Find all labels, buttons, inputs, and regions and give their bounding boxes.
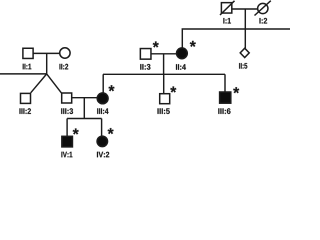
couple line III:3-III:4 [72, 97, 98, 99]
label II:4 [176, 64, 186, 70]
sibship line generation II right [182, 29, 290, 48]
wire descender III:3 couple [83, 98, 85, 119]
wire drop to III:4 [102, 74, 104, 92]
label III:2 [19, 108, 30, 114]
wire descender II:1 couple [46, 53, 48, 74]
couple line II:1-II:2 [34, 52, 60, 54]
deceased female I:2 [255, 1, 271, 16]
label III:6 [218, 108, 230, 114]
wire from left edge [0, 73, 47, 75]
asterisk III:4 [108, 85, 114, 91]
label II:3 [140, 64, 150, 70]
male III:3 [62, 93, 72, 103]
wire descender I couple to II:5 [244, 9, 246, 48]
wire drop to III:6 [224, 74, 226, 91]
label I:1 [223, 18, 231, 24]
label III:5 [158, 108, 170, 114]
diagonal wire to III:3 [47, 74, 62, 93]
affected male IV:1 [62, 136, 73, 147]
male II:1 [23, 48, 33, 58]
couple line I:1-I:2 [233, 8, 258, 10]
label III:4 [97, 108, 108, 114]
wire drop to III:5 [163, 74, 165, 93]
wire drop to IV:1 [66, 119, 68, 137]
affected female IV:2 [97, 136, 108, 147]
label II:1 [23, 64, 32, 70]
label III:3 [61, 108, 73, 114]
asterisk III:5 [170, 87, 176, 93]
male II:3 [140, 49, 151, 60]
male III:5 [160, 94, 170, 104]
label IV:1 [61, 152, 72, 158]
diamond II:5 [240, 48, 249, 57]
couple line II:3-II:4 [151, 53, 177, 55]
asterisk II:4 [190, 41, 196, 47]
affected male III:6 [220, 92, 231, 103]
sibship line generation IV [67, 118, 102, 120]
sibship line generation III right [103, 73, 225, 75]
label II:5 [239, 63, 247, 69]
deceased male I:1 [220, 1, 235, 15]
female II:2 [60, 48, 70, 58]
asterisk III:6 [233, 87, 239, 93]
label II:2 [59, 64, 68, 70]
label IV:2 [97, 152, 109, 158]
affected female II:4 [177, 48, 188, 59]
label I:2 [259, 18, 267, 24]
affected female III:4 [97, 93, 108, 104]
asterisk IV:1 [73, 129, 79, 135]
male III:2 [21, 93, 31, 103]
diagonal wire to III:2 [31, 74, 47, 93]
wire descender II:3 couple [163, 54, 165, 75]
asterisk IV:2 [108, 128, 114, 134]
wire drop to IV:2 [101, 119, 103, 137]
asterisk II:3 [153, 42, 159, 48]
